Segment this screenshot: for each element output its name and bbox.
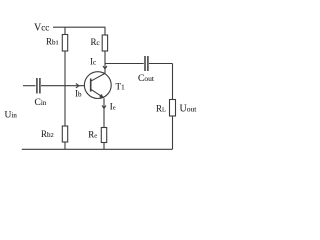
wire Rb1 top lead bbox=[64, 27, 66, 34]
arrow Ic bbox=[103, 66, 107, 69]
wire Rb2 bottom lead bbox=[64, 142, 66, 149]
wire collector lead bbox=[104, 51, 106, 73]
wire Rb1 bottom to base node bbox=[64, 51, 66, 86]
wire output left segment bbox=[105, 63, 144, 65]
capacitor Cin bbox=[37, 78, 40, 94]
wire input left segment bbox=[23, 85, 36, 87]
wire Rc top lead bbox=[104, 27, 106, 35]
arrow emitter bbox=[99, 94, 104, 98]
wire Cin to base bbox=[41, 85, 84, 87]
arrow Ie bbox=[102, 106, 106, 109]
svg-text:T1: T1 bbox=[116, 81, 126, 91]
svg-text:Cout: Cout bbox=[138, 74, 155, 84]
capacitor Cout bbox=[145, 56, 148, 71]
transistor emitter diagonal bbox=[91, 89, 102, 96]
resistor RL bbox=[170, 100, 176, 117]
wire top rail Vcc bbox=[53, 26, 106, 28]
resistor Rb1 bbox=[62, 35, 67, 52]
svg-text:Ib: Ib bbox=[75, 88, 82, 98]
svg-text:Ic: Ic bbox=[90, 56, 96, 66]
wire Cout to load bbox=[149, 63, 173, 65]
svg-text:Vcc: Vcc bbox=[34, 22, 49, 33]
transistor T1 circle bbox=[84, 72, 111, 99]
arrow Ib bbox=[76, 84, 79, 88]
wire right column top bbox=[172, 64, 174, 100]
svg-text:Rc: Rc bbox=[91, 37, 100, 47]
transistor collector diagonal bbox=[91, 73, 105, 81]
svg-text:Cin: Cin bbox=[35, 98, 47, 108]
wire emitter lead bbox=[103, 98, 105, 127]
wire right column bottom bbox=[172, 116, 174, 149]
resistor Rb2 bbox=[62, 126, 67, 142]
transistor base bar bbox=[90, 78, 92, 91]
wire bottom rail bbox=[22, 148, 173, 150]
resistor Re bbox=[101, 128, 106, 143]
svg-text:Uout: Uout bbox=[180, 104, 198, 115]
wire Re bottom lead bbox=[103, 143, 105, 150]
svg-text:Uin: Uin bbox=[5, 111, 18, 121]
wire base node to Rb2 top bbox=[64, 86, 66, 126]
resistor Rc bbox=[102, 35, 107, 51]
